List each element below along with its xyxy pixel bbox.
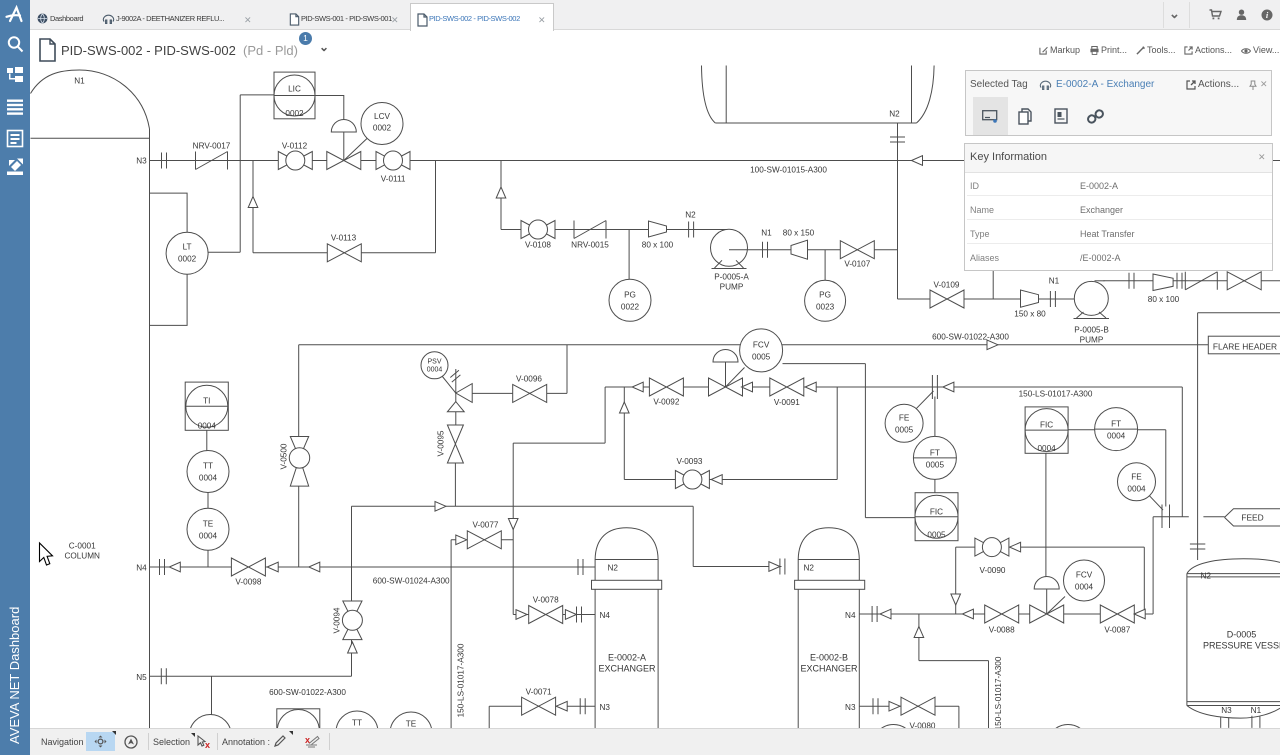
valve V-0080 xyxy=(901,697,935,715)
wire LT bottom tap xyxy=(150,275,188,326)
svg-text:V-0098: V-0098 xyxy=(235,578,261,587)
wire FIC-0004 signal drop xyxy=(1045,453,1047,579)
svg-text:COLUMN: COLUMN xyxy=(64,552,100,561)
svg-text:N1: N1 xyxy=(1251,706,1262,715)
svg-text:LIC: LIC xyxy=(288,85,301,94)
column C-0001 dome xyxy=(31,70,150,129)
wire V-0108 pump suction line xyxy=(501,229,731,231)
wire P-0005-A discharge line xyxy=(747,249,897,251)
arrow left after E-0002-B N4 xyxy=(880,609,891,619)
wire FE-0005 orifice tap xyxy=(934,397,936,437)
selected tag panel xyxy=(965,70,1272,136)
svg-text:NRV-0015: NRV-0015 xyxy=(571,241,609,250)
svg-text:V-0094: V-0094 xyxy=(333,607,342,633)
arrow left after FCV-0005 xyxy=(742,382,753,392)
tab 3 xyxy=(289,13,300,26)
tree icon xyxy=(7,67,23,82)
wire FEED drop to V-0087 xyxy=(1152,517,1154,614)
flange discharge B xyxy=(1177,273,1182,289)
svg-text:V-0112: V-0112 xyxy=(282,142,308,151)
svg-text:N4: N4 xyxy=(136,564,147,573)
svg-text:0005: 0005 xyxy=(895,426,914,435)
control valve LCV-0002 body xyxy=(327,152,361,170)
wire LT signal run xyxy=(208,251,240,253)
arrow left after V-0090 xyxy=(1010,542,1021,552)
svg-text:N4: N4 xyxy=(600,611,611,620)
svg-text:N3: N3 xyxy=(600,703,611,712)
vessel D-0005 top dome xyxy=(1187,559,1280,574)
exchanger E-0002-A dome xyxy=(595,528,658,560)
instrument TT-0004 xyxy=(187,451,229,493)
arrow left before V-0088 xyxy=(962,609,973,619)
svg-text:TT: TT xyxy=(203,462,213,471)
tab bar xyxy=(30,0,1280,30)
instrument circle bottom E-0002-B left xyxy=(873,725,915,755)
wire V-0071 line xyxy=(489,705,595,707)
instrument FIC-0004 xyxy=(1025,407,1068,453)
instrument PSV-0004 bubble xyxy=(421,352,448,379)
svg-text:x: x xyxy=(305,735,310,745)
arrow up on V-0093 left riser xyxy=(620,402,630,413)
control valve FCV-0004 body xyxy=(1030,605,1064,623)
column C-0001 tangent line xyxy=(31,137,150,139)
wire recycle feed riser xyxy=(1181,387,1183,517)
exchanger E-0002-A right wall xyxy=(657,560,659,729)
svg-text:PUMP: PUMP xyxy=(720,283,744,292)
svg-text:N5: N5 xyxy=(136,673,147,682)
svg-text:EXCHANGER: EXCHANGER xyxy=(598,664,656,674)
svg-text:FEED: FEED xyxy=(1241,513,1263,523)
svg-text:0002: 0002 xyxy=(178,255,197,264)
svg-text:600-SW-01024-A300: 600-SW-01024-A300 xyxy=(373,577,450,586)
wire PSV lead hash marks xyxy=(450,370,460,382)
svg-text:FE: FE xyxy=(1131,473,1142,482)
flange N1 pump A xyxy=(763,242,768,258)
report icon xyxy=(8,131,23,147)
title row xyxy=(30,31,1280,65)
svg-text:TE: TE xyxy=(203,520,214,529)
svg-text:V-0095: V-0095 xyxy=(437,430,446,456)
wire FCV-0004 stem xyxy=(1046,589,1048,614)
svg-text:0002: 0002 xyxy=(373,124,392,133)
wire V-0090 left riser xyxy=(955,547,957,614)
svg-text:FE: FE xyxy=(899,414,910,423)
valve V-0092 xyxy=(649,378,683,396)
svg-text:P-0005-A: P-0005-A xyxy=(714,273,749,282)
wire line to exchangers xyxy=(352,505,694,507)
instrument square bottom xyxy=(277,709,320,752)
svg-text:N2: N2 xyxy=(1201,572,1212,581)
control valve LCV-0002 actuator dome xyxy=(331,120,356,133)
exchanger E-0002-A flange band xyxy=(592,580,662,589)
instrument TI-0004 xyxy=(185,382,228,430)
instrument PG-0023 xyxy=(805,280,846,321)
flange E-0002-B N4 xyxy=(872,606,877,622)
arrow right after V-0078 xyxy=(565,610,576,620)
svg-text:EXCHANGER: EXCHANGER xyxy=(800,664,858,674)
svg-text:V-0108: V-0108 xyxy=(525,241,551,250)
svg-text:LT: LT xyxy=(183,243,192,252)
instrument FT-0004 xyxy=(1095,408,1138,451)
svg-text:x: x xyxy=(205,740,210,749)
flange N4 column xyxy=(160,559,165,575)
flange pump B discharge xyxy=(1129,273,1134,289)
svg-text:0022: 0022 xyxy=(621,303,640,312)
flange E-0002-B N3 xyxy=(873,698,878,714)
dashboard tab xyxy=(37,13,48,24)
arrow left on N3 line at N2 xyxy=(912,156,923,166)
svg-text:150 x 80: 150 x 80 xyxy=(1014,310,1046,319)
svg-text:FCV: FCV xyxy=(1076,571,1093,580)
wire N2 drop from top vessel xyxy=(897,123,899,299)
top vessel right dished head xyxy=(917,66,935,124)
svg-text:V-0111: V-0111 xyxy=(381,175,406,184)
valve V-0113 xyxy=(327,244,361,262)
valve V-0111 xyxy=(376,151,410,170)
arrow right on exchanger feed line xyxy=(435,502,446,512)
instrument LCV-0002 bubble xyxy=(361,103,403,145)
check valve NRV discharge B xyxy=(1185,272,1217,290)
arrow up below PSV xyxy=(447,402,464,412)
svg-text:0005: 0005 xyxy=(926,461,945,470)
valve V-0087 xyxy=(1100,605,1134,623)
vessel D-0005 left wall xyxy=(1186,574,1188,706)
exchanger E-0002-B flange band xyxy=(795,580,865,589)
wire FCV-0004 positioner link xyxy=(1047,597,1065,615)
svg-text:V-0071: V-0071 xyxy=(526,688,552,697)
instrument FT-0005 xyxy=(913,436,956,479)
valve V-0500 xyxy=(289,437,309,487)
arrow up on V-0108 riser xyxy=(496,187,506,198)
svg-text:N2: N2 xyxy=(685,211,696,220)
left sidebar xyxy=(0,0,30,755)
svg-text:N3: N3 xyxy=(136,157,147,166)
wire FCV-0005 stem xyxy=(725,362,727,387)
wire N5 line 600-SW-01022-A300 xyxy=(150,675,352,677)
wire LT top tap xyxy=(150,193,188,232)
valve V-0095 xyxy=(447,425,463,463)
wire flare crossover vertical xyxy=(1197,313,1199,560)
vessel D-0005 top band xyxy=(1187,574,1280,577)
valve V-0090 xyxy=(975,538,1009,557)
arrow up on LS branch xyxy=(914,627,924,638)
instrument circle bottom left xyxy=(189,715,231,755)
arrow up below V-0094 xyxy=(348,642,358,653)
wire D-0005 N2 flange xyxy=(1190,544,1205,549)
control valve FCV-0005 actuator dome xyxy=(713,350,738,363)
control valve FCV-0005 body xyxy=(709,378,743,396)
wire FEED line right segment xyxy=(1203,516,1224,518)
svg-text:0004: 0004 xyxy=(1037,444,1056,453)
svg-text:V-0113: V-0113 xyxy=(331,234,357,243)
exchanger E-0002-A dome base xyxy=(595,559,658,561)
svg-text:FLARE HEADER: FLARE HEADER xyxy=(1213,342,1277,352)
wire V-0113 bypass right riser xyxy=(435,161,437,253)
wire V-0090 bypass line xyxy=(956,546,1145,548)
wire TE to N4 line xyxy=(207,550,209,567)
svg-text:TE: TE xyxy=(406,720,417,729)
svg-text:600-SW-01022-A300: 600-SW-01022-A300 xyxy=(269,688,346,697)
arrow left after V-0500 branch xyxy=(309,562,320,572)
instrument TT bottom xyxy=(336,711,378,753)
svg-text:P-0005-B: P-0005-B xyxy=(1074,326,1109,335)
wire recycle corner run xyxy=(513,442,605,444)
svg-text:0002: 0002 xyxy=(285,109,304,118)
svg-text:N4: N4 xyxy=(845,611,856,620)
svg-text:PG: PG xyxy=(624,291,636,300)
wire LCV positioner link xyxy=(344,138,368,161)
arrow left on N4 line xyxy=(169,562,180,572)
wire FIC-0004 to FT-0004 xyxy=(1068,429,1095,431)
wire PSV outlet riser xyxy=(566,345,568,394)
wire riser behind panel xyxy=(992,268,994,300)
valve V-0071 xyxy=(522,697,556,715)
wire V-0108 branch riser xyxy=(500,161,502,230)
wire FEED line left segment xyxy=(1153,516,1189,518)
svg-text:N2: N2 xyxy=(608,564,619,573)
svg-text:FIC: FIC xyxy=(1040,421,1053,430)
wire V-0096 line xyxy=(473,392,568,394)
wire LS line branch run xyxy=(919,660,989,662)
wire 150-LS-01017-A300 drop xyxy=(450,540,452,729)
svg-text:0004: 0004 xyxy=(198,422,217,431)
vessel D-0005 nozzle stub N3 xyxy=(1221,717,1229,728)
svg-text:80 x 100: 80 x 100 xyxy=(1148,295,1180,304)
arrow up on V-0113 riser xyxy=(248,197,258,208)
arrow down on V-0090 riser xyxy=(951,594,961,605)
FLARE HEADER box xyxy=(1208,336,1280,354)
svg-text:V-0093: V-0093 xyxy=(677,457,703,466)
top vessel left dished head xyxy=(702,66,716,124)
wire FE-0005 lead xyxy=(916,391,933,409)
AVEVA logo A xyxy=(7,8,22,22)
svg-text:E-0002-A: E-0002-A xyxy=(608,653,646,663)
wire TT-TE link xyxy=(207,493,209,509)
svg-text:V-0109: V-0109 xyxy=(934,281,960,290)
icon toolbar xyxy=(973,97,1008,135)
wire LS line branch drop2 xyxy=(988,661,990,729)
instrument PG-0022 xyxy=(609,279,651,321)
wire E-0002-B N2 inlet xyxy=(693,566,781,568)
svg-text:N1: N1 xyxy=(761,229,772,238)
wire FT-0005 to FIC-0005 xyxy=(934,479,936,492)
export icon xyxy=(7,159,23,176)
wire PSV inlet xyxy=(455,393,457,425)
instrument FIC-0005 xyxy=(915,493,958,541)
wire LIC to LCV signal xyxy=(315,96,344,122)
arrow left on recycle line xyxy=(632,382,643,392)
svg-text:0004: 0004 xyxy=(199,474,218,483)
top vessel bottom shell xyxy=(715,122,916,124)
flange N5 xyxy=(161,668,166,684)
arrow left after V-0071 xyxy=(556,701,567,711)
wire LS line branch drop xyxy=(918,614,920,661)
wire FT-0004 orifice drop xyxy=(1165,430,1167,507)
wire V-0090 right riser xyxy=(1143,547,1145,614)
svg-text:0023: 0023 xyxy=(816,303,835,312)
wire V-0078 line xyxy=(513,614,595,616)
wire V-0093 left riser xyxy=(623,387,625,480)
valve V-0093 xyxy=(675,470,709,489)
svg-text:0005: 0005 xyxy=(927,531,946,540)
wire V-0093 right riser xyxy=(836,387,838,480)
svg-text:0004: 0004 xyxy=(1127,485,1146,494)
arrow right on V-0077 line xyxy=(456,535,467,545)
relief valve PSV-0004 body xyxy=(456,384,472,403)
wire N4 line 600-SW-01024-A300 xyxy=(150,566,596,568)
arrow left after V-0098 xyxy=(267,562,278,572)
arrow left after V-0087 xyxy=(1134,609,1145,619)
svg-text:V-0077: V-0077 xyxy=(473,521,499,530)
svg-text:N3: N3 xyxy=(1221,706,1232,715)
svg-text:0004: 0004 xyxy=(1075,583,1094,592)
wire FT-0004 run xyxy=(1138,429,1166,431)
reducer 80x100 suction xyxy=(649,221,667,237)
wire bottom instrument tap xyxy=(211,676,213,714)
svg-text:V-0107: V-0107 xyxy=(844,260,870,269)
instrument TE bottom xyxy=(390,712,432,754)
top right icons xyxy=(1160,0,1280,30)
top vessel left seam xyxy=(725,66,727,124)
check valve NRV-0015 xyxy=(574,221,606,239)
control valve FCV-0004 actuator dome xyxy=(1034,577,1059,590)
exchanger E-0002-A left wall xyxy=(594,560,596,729)
relief valve PSV-0004 spring stub xyxy=(455,369,457,393)
wire TI-TT link xyxy=(206,430,208,450)
wire V-0113 bypass line xyxy=(253,252,436,254)
wire V-0093 bypass line xyxy=(624,479,837,481)
valve V-0108 xyxy=(521,220,555,239)
wire signal to FCV-0005 xyxy=(783,363,866,365)
svg-text:TT: TT xyxy=(352,719,362,728)
check valve NRV-0017 xyxy=(196,152,228,170)
wire V-0094 riser xyxy=(351,506,353,676)
wire recycle corner drop xyxy=(604,387,606,443)
valve V-0077 xyxy=(467,531,501,549)
column C-0001 right wall xyxy=(149,129,151,729)
wire V-0077 line xyxy=(451,539,513,541)
orifice flange FE-0004 xyxy=(1162,505,1170,529)
reducer 150x80 xyxy=(1021,290,1039,307)
wire LT to LIC signal riser xyxy=(239,95,241,252)
arrow down on V-0078 riser xyxy=(508,519,518,530)
arrow right before V-0078 xyxy=(516,610,527,620)
tab 2 xyxy=(102,13,115,26)
wire V-0109 line xyxy=(898,298,1075,300)
svg-text:V-0090: V-0090 xyxy=(980,566,1006,575)
wire FIC-0005 signal run xyxy=(865,517,915,519)
svg-text:C-0001: C-0001 xyxy=(69,542,96,551)
svg-text:V-0078: V-0078 xyxy=(533,596,559,605)
svg-text:D-0005: D-0005 xyxy=(1227,630,1257,640)
svg-text:FT: FT xyxy=(1111,420,1121,429)
valve V-0091 xyxy=(770,378,804,396)
svg-text:NRV-0017: NRV-0017 xyxy=(193,142,231,151)
valve V-0112 xyxy=(278,151,312,170)
svg-text:FT: FT xyxy=(930,449,940,458)
exchanger E-0002-B right wall xyxy=(858,560,860,729)
FEED off-page connector xyxy=(1225,509,1280,526)
instrument LIC-0002 xyxy=(274,72,315,119)
svg-text:V-0087: V-0087 xyxy=(1104,626,1130,635)
arrow right before V-0080 xyxy=(889,701,900,711)
svg-text:0004: 0004 xyxy=(427,367,443,374)
svg-text:80 x 150: 80 x 150 xyxy=(783,229,815,238)
key information panel xyxy=(964,143,1273,271)
svg-text:N2: N2 xyxy=(889,110,900,119)
svg-text:N2: N2 xyxy=(804,564,815,573)
valve V-0078 xyxy=(529,606,563,624)
wire flare line 600-SW-01022-A300 xyxy=(299,344,1209,346)
svg-text:150-LS-01017-A300: 150-LS-01017-A300 xyxy=(994,656,1003,728)
reducer 80x100 discharge B xyxy=(1153,274,1173,291)
exchanger E-0002-B left wall xyxy=(797,560,799,729)
svg-text:V-0092: V-0092 xyxy=(653,398,679,407)
arrow right on flare line xyxy=(987,340,998,350)
valve V-0107 xyxy=(840,241,874,259)
exchanger E-0002-B dome base xyxy=(798,559,859,561)
svg-text:0004: 0004 xyxy=(199,532,218,541)
svg-text:TI: TI xyxy=(203,397,210,406)
svg-text:600-SW-01022-A300: 600-SW-01022-A300 xyxy=(932,333,1009,342)
wire FIC-0005 signal riser xyxy=(864,364,866,518)
wire signal to LIC xyxy=(240,94,274,96)
right buttons xyxy=(1035,44,1280,46)
wire V-0071 drop xyxy=(488,706,490,728)
vessel D-0005 nozzle stub N1 xyxy=(1252,716,1260,728)
valve V-0094 xyxy=(342,601,362,640)
instrument FE-0005 xyxy=(885,404,923,442)
flange E-0002-A N4 xyxy=(577,607,582,623)
svg-text:V-0088: V-0088 xyxy=(989,626,1015,635)
valve V-0088 xyxy=(985,605,1019,623)
wire FCV-0005 recycle line xyxy=(605,386,1182,388)
wire PG-0022 tap xyxy=(628,230,630,280)
exchanger E-0002-B dome xyxy=(798,528,859,560)
svg-text:V-0091: V-0091 xyxy=(774,398,800,407)
wire LCV stem xyxy=(343,132,345,161)
wire V-0078 riser xyxy=(512,443,514,614)
orifice flange FE-0005 xyxy=(932,375,937,399)
svg-text:PSV: PSV xyxy=(427,359,441,366)
wire PG-0023 tap xyxy=(824,250,826,281)
vessel D-0005 bottom band xyxy=(1187,702,1280,706)
svg-text:0004: 0004 xyxy=(1107,432,1126,441)
instrument FE-0004 xyxy=(1118,463,1156,501)
flange N3 xyxy=(162,153,167,169)
arrow left after V-0093 xyxy=(711,475,722,485)
wire flare crossover horizontal xyxy=(1198,312,1280,314)
flange E-0002-B N2 xyxy=(780,559,785,575)
instrument circle bottom right xyxy=(1047,725,1089,755)
wire V-0080 drop xyxy=(958,706,960,728)
instrument FCV-0005 bubble xyxy=(740,329,783,372)
arrow left after V-0091 xyxy=(805,382,816,392)
wire N3 main line 100-SW-01015-A300 xyxy=(150,160,1280,162)
search icon xyxy=(9,37,23,51)
wire FE-0004 lead xyxy=(1149,495,1163,510)
reducer 80x150 discharge xyxy=(791,240,808,259)
svg-text:PG: PG xyxy=(819,291,831,300)
instrument FCV-0004 bubble xyxy=(1064,560,1105,601)
mouse cursor xyxy=(40,543,53,565)
wire V-0113 bypass left riser xyxy=(252,161,254,253)
svg-text:PUMP: PUMP xyxy=(1080,336,1104,345)
flange N2 top vessel xyxy=(890,137,905,142)
vessel D-0005 bottom dish xyxy=(1187,706,1280,719)
svg-text:150-LS-01017-A300: 150-LS-01017-A300 xyxy=(1019,390,1093,399)
flange N2 pump A xyxy=(689,222,694,238)
